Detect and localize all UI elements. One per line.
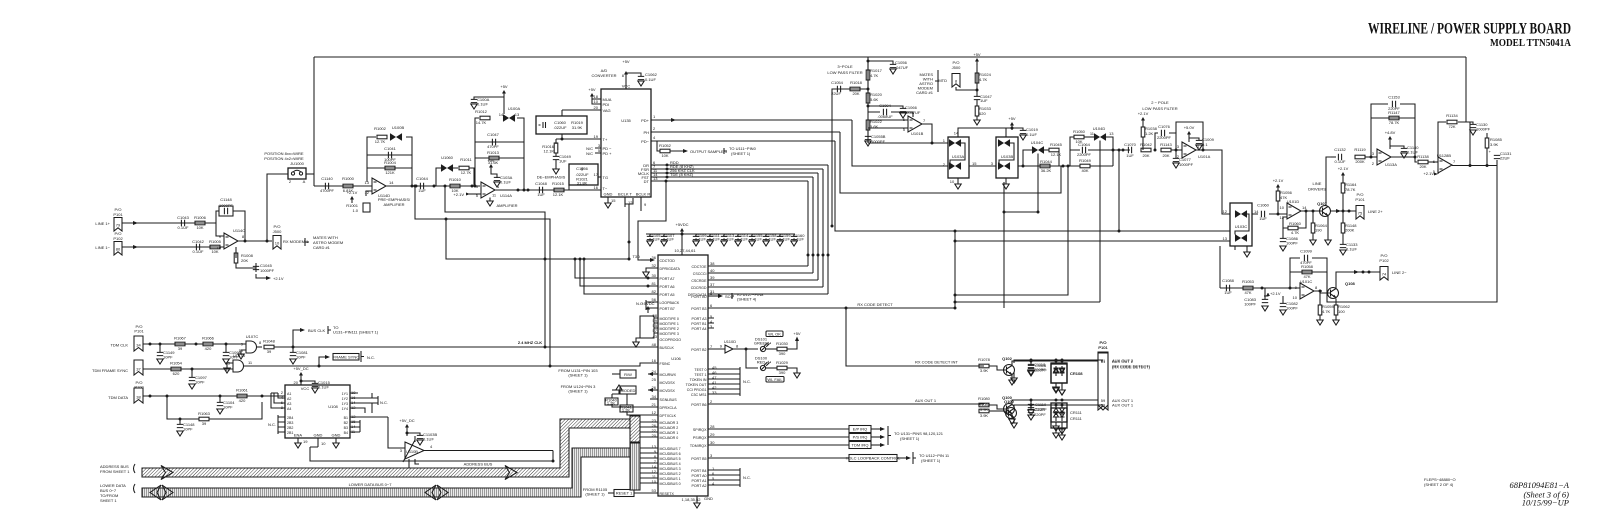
svg-text:37: 37 <box>710 282 715 287</box>
svg-text:+5.0V: +5.0V <box>1184 125 1195 130</box>
wire serial link down to DPTXDATA <box>827 165 829 294</box>
svg-text:39: 39 <box>710 275 715 280</box>
svg-text:DE−EMPHASIS: DE−EMPHASIS <box>537 175 566 180</box>
buffer U110B triangle <box>405 442 424 459</box>
svg-text:U100B: U100B <box>392 125 405 130</box>
svg-text:R1006: R1006 <box>194 215 207 220</box>
capacitor C1140 <box>1390 146 1404 148</box>
svg-text:0.1UF: 0.1UF <box>751 236 762 241</box>
svg-text:MCUDBUS 4: MCUDBUS 4 <box>660 462 681 466</box>
box C1060 .022UF at VAG <box>536 116 587 134</box>
wire output to Q108 <box>1314 291 1328 293</box>
resistor R1052 branch OUTPUT SAMPLE <box>657 141 683 151</box>
svg-text:14: 14 <box>389 180 394 185</box>
svg-text:36.2K: 36.2K <box>1041 168 1052 173</box>
svg-text:1Y1: 1Y1 <box>342 392 348 396</box>
svg-text:25: 25 <box>652 377 657 382</box>
capacitor C1076 feedback <box>1155 133 1176 150</box>
svg-text:C1043: C1043 <box>177 215 190 220</box>
wire internal S U103B <box>999 143 1014 164</box>
svg-text:MCVDSX: MCVDSX <box>660 389 676 393</box>
output wire U101A down to U103C <box>1203 150 1230 214</box>
shunt R1008 on LINE1- <box>235 247 237 258</box>
svg-text:10: 10 <box>217 245 222 250</box>
svg-text:CARD #1: CARD #1 <box>916 90 934 95</box>
svg-text:P/S IRQ: P/S IRQ <box>853 435 868 440</box>
svg-text:4.7K: 4.7K <box>979 77 988 82</box>
left pin DPRXCLA with R1040 <box>612 404 658 407</box>
feedback box C1153 R1147 <box>1371 104 1415 158</box>
svg-text:2200PF: 2200PF <box>1077 152 1092 157</box>
svg-text:220PF: 220PF <box>1034 412 1046 417</box>
wire serial link RDD down to CDC7OE <box>807 181 809 266</box>
left pin LOOPBACK N.C. <box>646 300 658 310</box>
op-amp U101A <box>1182 142 1196 158</box>
svg-text:T3D: T3D <box>632 254 640 259</box>
+2.1V arrow <box>1264 293 1268 296</box>
svg-text:GND: GND <box>704 496 713 501</box>
grounded gate input <box>227 363 233 368</box>
wire internal S U103C <box>1235 214 1249 235</box>
svg-text:FROM SHEET 1: FROM SHEET 1 <box>100 469 130 474</box>
svg-text:U1128B: U1128B <box>1437 153 1451 158</box>
svg-text:12: 12 <box>1223 209 1228 214</box>
wire Q108 collector to LINE 2- <box>1336 272 1380 288</box>
svg-text:10K: 10K <box>196 225 203 230</box>
address bus mid arrow <box>505 466 517 480</box>
svg-text:+2.1V: +2.1V <box>273 276 284 281</box>
svg-text:PORT B6: PORT B6 <box>691 403 706 407</box>
resistor R1004 <box>385 166 395 170</box>
svg-text:N.C.: N.C. <box>367 355 375 360</box>
svg-text:R1063: R1063 <box>198 411 211 416</box>
svg-text:PD+: PD+ <box>641 118 650 123</box>
op-amp U101B <box>908 116 922 132</box>
capacitor C1047 <box>492 139 495 145</box>
svg-text:J500: J500 <box>273 229 282 234</box>
+2.1V R1164 divider at Q107 <box>1341 172 1345 179</box>
svg-text:CSCCCI: CSCCCI <box>693 272 707 276</box>
capacitor C1049 <box>553 156 559 159</box>
resistor R1066 <box>203 342 213 346</box>
svg-text:48: 48 <box>652 342 657 347</box>
svg-text:N.C.: N.C. <box>380 400 388 405</box>
resistor R1022 <box>866 120 870 130</box>
svg-text:B4: B4 <box>344 431 348 435</box>
data bus hatched band <box>142 448 630 497</box>
svg-text:61: 61 <box>1101 358 1106 363</box>
svg-text:200K: 200K <box>1345 228 1355 233</box>
wire U101D output to Q107 <box>1301 210 1320 212</box>
svg-text:A4: A4 <box>287 407 291 411</box>
svg-text:10,27,44,61: 10,27,44,61 <box>674 248 696 253</box>
resistor R1042 <box>1141 148 1151 152</box>
svg-text:PORT A3: PORT A3 <box>691 317 706 321</box>
svg-text:+2.1V: +2.1V <box>1273 178 1284 183</box>
right pins DR FSR MCLK FST DT <box>651 165 828 181</box>
svg-text:MCUDBUS 0: MCUDBUS 0 <box>660 482 681 486</box>
svg-text:PORT A1: PORT A1 <box>691 479 706 483</box>
+5V and C1019 at switch rail <box>1010 122 1014 129</box>
svg-text:0.1UF: 0.1UF <box>663 236 674 241</box>
svg-text:0.1UF: 0.1UF <box>1335 159 1346 164</box>
svg-text:22UF: 22UF <box>831 91 841 96</box>
bridge up to U104C row <box>1023 150 1032 166</box>
svg-text:34: 34 <box>652 394 657 399</box>
svg-text:200K: 200K <box>1355 159 1365 164</box>
svg-text:MCUDBUS 5: MCUDBUS 5 <box>660 457 681 461</box>
svg-text:R1060: R1060 <box>1289 221 1302 226</box>
capacitor C1043 <box>181 220 184 226</box>
svg-text:MCUADR 2: MCUADR 2 <box>660 426 679 430</box>
svg-text:+2.1V: +2.1V <box>347 190 358 195</box>
wire 846 vertical to RX CODE DETECT INT <box>846 308 984 366</box>
op-amp U1128B <box>1438 157 1452 173</box>
svg-text:P101: P101 <box>113 212 123 217</box>
feedback box R1134 C1130 <box>1438 122 1473 166</box>
svg-text:C3C MS1: C3C MS1 <box>691 393 707 397</box>
feedback R1060 under U101D <box>1283 211 1306 228</box>
wire NE nested corner into CDCTOD <box>638 181 666 260</box>
svg-text:74: 74 <box>1382 272 1387 277</box>
svg-text:16: 16 <box>594 185 599 190</box>
svg-text:1000PF: 1000PF <box>1179 162 1194 167</box>
+2.1V arrow at C1045 <box>256 274 266 278</box>
svg-text:20K: 20K <box>1142 153 1149 158</box>
wire FRAME SYNC branch <box>319 357 325 366</box>
gate U107D <box>233 360 244 372</box>
svg-text:MCUADR 1: MCUADR 1 <box>660 431 679 435</box>
svg-text:TDM IRQ: TDM IRQ <box>852 443 869 448</box>
wire LINE1- to U114C <box>122 246 224 248</box>
svg-text:0.1UF: 0.1UF <box>723 236 734 241</box>
svg-text:+2.1V: +2.1V <box>1338 166 1349 171</box>
svg-text:4.7K: 4.7K <box>870 73 879 78</box>
svg-text:1UF: 1UF <box>1224 290 1232 295</box>
svg-text:VCC: VCC <box>622 84 631 89</box>
resistor R1000 <box>343 184 353 188</box>
svg-text:1UF: 1UF <box>559 159 567 164</box>
svg-text:43: 43 <box>653 334 658 339</box>
svg-text:AMPLIFIER: AMPLIFIER <box>496 203 517 208</box>
svg-text:PORT A0: PORT A0 <box>691 474 706 478</box>
svg-text:20: 20 <box>594 105 599 110</box>
address bus entry arrow <box>161 466 173 480</box>
svg-text:U101B: U101B <box>911 131 924 136</box>
svg-text:P102: P102 <box>1379 258 1389 263</box>
right pins PORT A3 B1 A4 <box>708 318 714 328</box>
svg-text:31.8K: 31.8K <box>577 181 588 186</box>
svg-text:T+: T+ <box>603 137 608 142</box>
svg-text:420: 420 <box>205 346 212 351</box>
data bus entry double arrow <box>150 485 173 500</box>
output wire U101B to U103A <box>922 124 948 143</box>
data bus mid double arrow <box>425 485 448 500</box>
resistor R1012 <box>480 116 490 120</box>
svg-text:+5V: +5V <box>793 331 801 336</box>
svg-text:13: 13 <box>653 176 658 181</box>
svg-text:30: 30 <box>710 440 715 445</box>
svg-text:220PF: 220PF <box>1034 367 1046 372</box>
svg-text:4700PF: 4700PF <box>320 188 335 193</box>
svg-text:R1045: R1045 <box>1050 142 1063 147</box>
svg-text:1UF: 1UF <box>418 188 426 193</box>
op-amp U114A <box>481 182 495 198</box>
capacitor C1149 shunt <box>159 344 161 352</box>
right pin TDMIRQX <box>708 444 849 446</box>
svg-text:14: 14 <box>954 131 959 136</box>
svg-text:SGNLBUS: SGNLBUS <box>660 398 678 402</box>
resistor R1017 <box>866 70 870 80</box>
ground pin U103A <box>957 178 959 184</box>
svg-text:R1054: R1054 <box>170 361 183 366</box>
wire FSINC long run <box>244 363 659 366</box>
svg-text:PH: PH <box>643 130 649 135</box>
svg-text:C1148: C1148 <box>220 197 232 202</box>
right pin PORT B5 HDLC <box>708 457 849 459</box>
svg-text:N.C.: N.C. <box>743 475 751 480</box>
svg-text:2.4 MHZ CLK: 2.4 MHZ CLK <box>518 340 543 345</box>
buffer U110D <box>725 345 733 353</box>
resistor R1049 bottom row <box>1070 165 1113 167</box>
svg-text:POSITION 4x2=WIRE: POSITION 4x2=WIRE <box>264 156 304 161</box>
svg-text:PORT B0: PORT B0 <box>691 295 706 299</box>
svg-text:R1029: R1029 <box>776 360 789 365</box>
capacitor C1119 <box>1030 400 1032 404</box>
op-amp U101D <box>1287 203 1301 219</box>
svg-text:PORT A4: PORT A4 <box>691 327 706 331</box>
svg-text:34: 34 <box>136 343 141 348</box>
+5VDC MODTIPE pullup box <box>646 306 650 313</box>
feedback box C1099 R1058 <box>1290 258 1327 291</box>
IC U103A dual switch <box>948 137 969 178</box>
svg-text:1000PF: 1000PF <box>260 268 275 273</box>
svg-text:0.1UF: 0.1UF <box>318 385 329 390</box>
svg-text:(SHEET 4): (SHEET 4) <box>737 297 757 302</box>
analog switch U104C <box>1033 147 1044 154</box>
svg-text:4.7K: 4.7K <box>1322 309 1331 314</box>
capacitor C1042 <box>196 244 199 250</box>
svg-text:MODTIPE 0: MODTIPE 0 <box>660 317 679 321</box>
analog switch U100A <box>504 115 515 122</box>
right pin DPTXDATA <box>708 293 828 295</box>
svg-text:C1041: C1041 <box>384 146 397 151</box>
svg-text:1UF: 1UF <box>1126 153 1134 158</box>
svg-text:MCUDBUS 3: MCUDBUS 3 <box>660 467 681 471</box>
svg-text:1UF: 1UF <box>980 98 988 103</box>
svg-text:.047UF: .047UF <box>895 65 909 70</box>
svg-text:20: 20 <box>294 380 299 385</box>
svg-text:T−: T− <box>603 186 608 191</box>
svg-text:(RX CODE DETECT): (RX CODE DETECT) <box>1112 364 1151 369</box>
svg-text:57: 57 <box>653 328 658 333</box>
svg-text:0.1UF: 0.1UF <box>737 236 748 241</box>
svg-text:AUX OUT 1: AUX OUT 1 <box>915 398 937 403</box>
svg-text:+5V: +5V <box>487 158 495 163</box>
svg-text:20K: 20K <box>1419 164 1426 169</box>
svg-text:C1060: C1060 <box>1257 203 1270 208</box>
capacitor C1088 <box>1226 285 1229 291</box>
svg-text:Q108: Q108 <box>1345 281 1356 286</box>
svg-text:TDM CLK: TDM CLK <box>110 343 128 348</box>
right pin PORT B0 SCC <box>708 295 718 297</box>
resistor R1030 <box>777 347 787 351</box>
svg-text:+5V_DC: +5V_DC <box>399 418 414 423</box>
svg-text:FRAME SYNC: FRAME SYNC <box>333 355 359 360</box>
left pin VAG <box>562 110 601 139</box>
svg-text:J500: J500 <box>952 65 961 70</box>
svg-text:FSINC: FSINC <box>660 362 671 366</box>
right pin PORT B6 AUX OUT 1 <box>708 403 984 405</box>
svg-text:4.7K: 4.7K <box>1291 230 1300 235</box>
+5V at U101A <box>1187 131 1191 138</box>
left pin MUA <box>592 98 601 100</box>
svg-text:C1140: C1140 <box>321 176 333 181</box>
left pin SGHLBUS <box>650 398 658 400</box>
resistor R1013 <box>489 156 499 160</box>
svg-text:RX CODE DETECT: RX CODE DETECT <box>857 302 893 307</box>
resistor R1085 vertical <box>1486 148 1488 166</box>
svg-text:C1094: C1094 <box>879 103 892 108</box>
svg-text:R1138: R1138 <box>1417 154 1429 159</box>
ground resistors under U101C <box>1319 293 1321 305</box>
svg-text:32: 32 <box>652 263 657 268</box>
svg-text:10: 10 <box>1293 295 1298 300</box>
svg-text:U103A: U103A <box>952 154 965 159</box>
wire serial link down to CSCRDE <box>817 173 819 280</box>
svg-text:JU1000: JU1000 <box>290 161 305 166</box>
left pin TG <box>598 176 601 178</box>
LED DS100 RED <box>746 349 758 368</box>
svg-text:RESETX: RESETX <box>660 492 675 496</box>
svg-text:R1015: R1015 <box>552 181 565 186</box>
capacitor C1118 <box>1030 361 1032 365</box>
capacitor C1083 <box>1264 288 1266 299</box>
svg-text:MODTIPE 2: MODTIPE 2 <box>660 327 679 331</box>
svg-text:C1088: C1088 <box>1222 278 1235 283</box>
svg-text:0.1UF: 0.1UF <box>649 236 660 241</box>
svg-text:2200PF: 2200PF <box>1157 135 1172 140</box>
svg-text:190: 190 <box>1315 228 1322 233</box>
svg-text:2B1: 2B1 <box>287 431 293 435</box>
svg-text:Q102: Q102 <box>1002 356 1013 361</box>
wire U104D node down to row 302 <box>955 301 1100 303</box>
svg-text:12: 12 <box>652 410 657 415</box>
svg-text:(SHEET 1): (SHEET 1) <box>731 151 751 156</box>
svg-text:78.7K: 78.7K <box>1345 187 1356 192</box>
svg-text:10PF: 10PF <box>223 405 233 410</box>
svg-text:B3: B3 <box>344 426 348 430</box>
resistor R1015 <box>554 188 564 192</box>
svg-text:53: 53 <box>652 488 657 493</box>
wires MCUADR bar to pins <box>640 422 658 437</box>
shunt C1045 <box>236 263 256 272</box>
svg-text:C1132: C1132 <box>1334 147 1346 152</box>
svg-text:U108: U108 <box>328 404 338 409</box>
svg-text:3−POLE: 3−POLE <box>837 64 853 69</box>
svg-text:DPRXCLA: DPRXCLA <box>660 406 678 410</box>
svg-text:TOKEN OUT: TOKEN OUT <box>686 383 708 387</box>
resistor R1045 <box>1049 148 1059 152</box>
svg-text:15: 15 <box>611 198 616 203</box>
connector pin 37 <box>134 360 143 375</box>
left pin DPRIGDATA <box>646 268 658 272</box>
svg-text:13: 13 <box>515 112 520 117</box>
svg-text:R1078: R1078 <box>978 357 991 362</box>
svg-text:0.1UF: 0.1UF <box>793 236 804 241</box>
svg-text:0.1UF: 0.1UF <box>765 236 776 241</box>
svg-text:12.7K: 12.7K <box>375 139 386 144</box>
svg-text:100PF: 100PF <box>1286 306 1298 311</box>
capacitor C1132 <box>1338 154 1341 160</box>
svg-text:VAG: VAG <box>603 108 611 113</box>
svg-text:C1099: C1099 <box>1300 249 1313 254</box>
diode pack CR111 <box>1051 408 1067 428</box>
svg-text:BCLK R: BCLK R <box>636 192 651 197</box>
wire MTD down to R1024 chain <box>956 70 977 96</box>
right pin CSCRDE <box>708 279 818 281</box>
op-amp U113A <box>1377 149 1391 165</box>
capacitor C1044 <box>420 183 423 189</box>
svg-text:13: 13 <box>1109 131 1114 136</box>
capacitor C1060 <box>1261 211 1264 217</box>
svg-text:MCURWX: MCURWX <box>660 373 677 377</box>
svg-text:0.1UF: 0.1UF <box>477 102 488 107</box>
IC U106 body <box>658 255 708 496</box>
svg-text:+5V: +5V <box>973 52 981 57</box>
output wire U114A to U135 <box>495 189 601 191</box>
svg-text:DRIVERS: DRIVERS <box>1308 187 1326 192</box>
svg-text:40: 40 <box>710 268 715 273</box>
wire vertical 955 <box>954 231 956 308</box>
resistor R1024 <box>975 73 979 83</box>
svg-text:U101A: U101A <box>1198 154 1211 159</box>
diode pack CR108 <box>1051 363 1067 383</box>
resistor R1050 <box>1074 135 1084 139</box>
capacitor C1081 shunt at junction <box>292 347 294 352</box>
svg-text:OUTPUT SAMPLE 1: OUTPUT SAMPLE 1 <box>690 149 728 154</box>
svg-text:R1143: R1143 <box>1160 142 1172 147</box>
resistor R1054 <box>171 367 181 371</box>
svg-text:C1064: C1064 <box>1078 142 1091 147</box>
svg-text:40K: 40K <box>1081 168 1088 173</box>
svg-text:P101: P101 <box>1355 197 1365 202</box>
svg-text:OCOPROGO: OCOPROGO <box>660 338 682 342</box>
svg-text:TOKEN IN: TOKEN IN <box>690 378 707 382</box>
svg-text:N/C: N/C <box>586 151 593 156</box>
svg-text:39: 39 <box>178 346 183 351</box>
svg-text:PORT B4: PORT B4 <box>691 469 706 473</box>
svg-text:1000PF: 1000PF <box>1476 127 1491 132</box>
svg-text:28: 28 <box>710 424 715 429</box>
svg-text:R1010: R1010 <box>449 177 462 182</box>
svg-text:100: 100 <box>1338 309 1345 314</box>
svg-text:0.1UF: 0.1UF <box>695 236 706 241</box>
svg-text:10: 10 <box>321 441 326 446</box>
left pin PDI <box>592 99 601 104</box>
svg-text:+5V: +5V <box>500 84 508 89</box>
feedback box: R1002 / U100B / C1041 / R1004 <box>367 137 412 186</box>
svg-text:WL OK: WL OK <box>768 332 781 337</box>
resistor R1002 <box>377 135 387 139</box>
svg-text:(SHEET 1): (SHEET 1) <box>568 389 588 394</box>
svg-text:1,18,35,52: 1,18,35,52 <box>682 497 702 502</box>
resistor R1061 <box>237 394 247 398</box>
wire feeder PORT A7 <box>445 186 545 347</box>
svg-text:5.6K: 5.6K <box>870 97 879 102</box>
svg-text:1Y4: 1Y4 <box>342 407 348 411</box>
svg-text:31.9K: 31.9K <box>572 125 583 130</box>
